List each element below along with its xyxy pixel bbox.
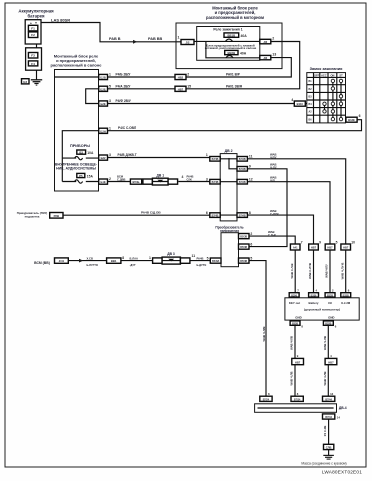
svg-text:В356: В356: [291, 294, 297, 297]
svg-text:А41: А41: [293, 246, 298, 250]
svg-text:Б.ДУТЕ: Б.ДУТЕ: [197, 263, 207, 267]
wire row6 BCM feed: [108, 181, 210, 183]
svg-text:10А: 10А: [87, 151, 94, 155]
wire row E converter to connector column 1: [249, 236, 295, 244]
svg-text:АСС: АСС: [321, 74, 327, 78]
wire gnd left down to HB7: [294, 325, 296, 358]
svg-text:Р4/Б 2В/У: Р4/Б 2В/У: [116, 73, 132, 77]
svg-text:В.ЛАА: В.ЛАА: [130, 256, 139, 260]
svg-text:расположенный в салоне: расположенный в салоне: [51, 63, 103, 68]
svg-text:В7/4В: В7/4В: [239, 158, 246, 161]
svg-text:LWA80EXT02E01: LWA80EXT02E01: [322, 470, 362, 475]
connector B1E row6: [99, 177, 111, 184]
svg-text:4: 4: [182, 175, 184, 179]
svg-text:6: 6: [359, 114, 361, 118]
svg-text:KEY out: KEY out: [289, 301, 300, 305]
wire row B to converter pin: [247, 169, 287, 247]
svg-text:GND: GND: [328, 315, 334, 319]
wire busbar to body ground: [328, 419, 330, 444]
fuse box (cabin) outline: [55, 70, 99, 192]
connector row: HB7 pin 9: [309, 241, 321, 250]
svg-text:-ДУТ: -ДУТ: [130, 263, 137, 267]
ignition switch contact bars: [325, 79, 342, 120]
svg-text:10: 10: [351, 241, 355, 245]
svg-text:В33В: В33В: [292, 323, 298, 326]
battery box 1: [25, 20, 41, 44]
svg-text:ILLUM: ILLUM: [341, 301, 350, 305]
connector J2 (right lower), pin 13: [260, 53, 277, 60]
junction DV2 right pin A, pin 11: [237, 155, 253, 162]
wire row A to connector column 4: [247, 159, 345, 244]
fuse F3: [28, 53, 37, 59]
connector P2B: [50, 213, 63, 219]
wire row1 fuse box to ignition relay pin13: [108, 58, 292, 77]
connector B2B row2: [99, 84, 111, 91]
svg-text:1: 1: [178, 35, 180, 39]
svg-text:В5/АВ: В5/АВ: [212, 260, 219, 263]
connector B2E row3: [99, 99, 111, 106]
connector B22 row5: [99, 153, 111, 160]
svg-text:ЗЗ С.ЗВ: ЗЗ С.ЗВ: [323, 426, 327, 437]
svg-text:С/Ж: С/Ж: [187, 178, 193, 182]
svg-text:СК: СК: [328, 301, 332, 305]
svg-text:В5/ЗВ: В5/ЗВ: [240, 246, 247, 249]
display gnd pin left: [290, 321, 303, 329]
connector HB7 (gnd right): [325, 358, 337, 364]
converter left pin (pin 5): [207, 257, 221, 264]
svg-text:Е3: Е3: [23, 80, 27, 84]
svg-text:WAB Ч/ЛУ: WAB Ч/ЛУ: [325, 264, 329, 278]
joint DV-3: [153, 252, 196, 264]
svg-text:В7/34: В7/34: [294, 398, 301, 401]
svg-text:3: 3: [206, 177, 208, 181]
svg-text:В110: В110: [297, 102, 304, 106]
wire row5 fuse box to junction DV2: [108, 157, 210, 159]
svg-text:расположенный в моторном: расположенный в моторном: [206, 15, 264, 20]
battery label: [18, 9, 54, 19]
svg-text:1: 1: [109, 126, 111, 130]
svg-text:РА01 ЗВ/Я: РА01 ЗВ/Я: [226, 84, 243, 88]
svg-text:OFF: OFF: [314, 74, 320, 78]
display pin B336 (pin 4): [309, 289, 319, 298]
busbar bottom pin, pin 14: [323, 414, 341, 420]
junction DV2 right pin C, pin 12: [237, 178, 253, 185]
svg-text:13: 13: [272, 53, 276, 57]
svg-text:ST: ST: [339, 74, 343, 78]
svg-text:7: 7: [301, 241, 303, 245]
arrow on battery wire: [133, 40, 137, 44]
svg-text:Ч/Л: Ч/Л: [270, 179, 275, 183]
svg-text:В336: В336: [311, 294, 317, 297]
svg-text:Б2Б: Б2Б: [100, 87, 105, 91]
junction DV2 right pin B, pin 9: [237, 165, 251, 172]
svg-text:F3: F3: [31, 54, 35, 58]
junction DV2 left pin row6: [206, 177, 220, 184]
svg-text:Battery: Battery: [309, 301, 319, 305]
svg-text:3: 3: [109, 153, 111, 157]
fuse 40A no.2 (fusible link): [225, 50, 247, 57]
connector SLV: [324, 444, 334, 449]
svg-text:С.Л-В: С.Л-В: [268, 233, 276, 237]
svg-text:ДВ 1: ДВ 1: [157, 173, 165, 177]
junction box DV2: [220, 149, 237, 221]
svg-text:WAB Ч.ЛВ: WAB Ч.ЛВ: [323, 371, 327, 385]
connector row: A41 pin 7: [290, 241, 302, 250]
wire HB7 right down to busbar: [327, 365, 329, 397]
svg-text:WAB Ч.ЛВ: WAB Ч.ЛВ: [290, 371, 294, 385]
svg-text:Р5: Р5: [79, 174, 83, 178]
ground busbar DV-4: [255, 404, 347, 413]
svg-text:F1: F1: [31, 27, 35, 31]
svg-text:LAS 80SR: LAS 80SR: [51, 17, 70, 22]
svg-text:В13Е: В13Е: [348, 118, 355, 122]
wire connector column 1 down to display: [294, 250, 296, 293]
svg-text:НИЕ, АУДИОСИСТЕМЫ: НИЕ, АУДИОСИСТЕМЫ: [56, 167, 96, 171]
svg-text:Б2Н: Б2Н: [100, 129, 105, 133]
svg-text:WAB Ч/ЛВ: WAB Ч/ЛВ: [290, 336, 294, 350]
svg-text:9: 9: [319, 241, 321, 245]
svg-text:РА4В: РА4В: [197, 256, 204, 260]
svg-text:WAB С-ЛУВ: WAB С-ЛУВ: [308, 263, 312, 279]
svg-text:ВВ1В: ВВ1В: [227, 34, 235, 38]
wire battery box2 to ground: [36, 70, 38, 80]
wire BCM to converter: [68, 260, 210, 262]
converter right pin 3 (pin 5): [239, 257, 253, 264]
internal feed wire from J2: [194, 41, 260, 57]
svg-text:WAB Ч-Л/В: WAB Ч-Л/В: [262, 327, 266, 342]
fuse 40A no.1: [224, 33, 247, 42]
display pin B32B (pin 2): [325, 289, 335, 298]
svg-text:1: 1: [109, 73, 111, 77]
svg-text:В32В: В32В: [325, 323, 331, 326]
svg-text:F2: F2: [31, 33, 35, 37]
svg-text:В33В: В33В: [343, 294, 349, 297]
wire row C to connector column 3: [247, 182, 330, 244]
fuse 10A: [75, 150, 94, 160]
svg-text:В7/4В: В7/4В: [212, 181, 219, 184]
svg-text:2: 2: [109, 177, 111, 181]
svg-text:ВЗ: ВЗ: [79, 151, 83, 155]
svg-text:Р4/А 2В/У: Р4/А 2В/У: [116, 84, 132, 88]
connector B2N row4: [99, 126, 111, 133]
wire gnd right down to HB7: [327, 325, 329, 358]
connector J2 (left): [181, 40, 194, 45]
svg-text:J/41: J/41: [59, 259, 65, 263]
fuse F4: [28, 61, 37, 66]
svg-text:ВВ2В: ВВ2В: [227, 51, 235, 55]
svg-text:Б2В: Б2В: [100, 76, 105, 80]
connector BU4B: [130, 179, 141, 184]
svg-text:Р4/Ф 2В/У: Р4/Ф 2В/У: [116, 99, 132, 103]
svg-text:вставкой, расположенный в сало: вставкой, расположенный в салоне: [205, 46, 257, 50]
wire row3 fuse box to ignition switch B110: [108, 103, 295, 105]
svg-text:Х.СВ: Х.СВ: [87, 256, 93, 260]
svg-text:В7/4В: В7/4В: [212, 158, 219, 161]
svg-text:1: 1: [206, 153, 208, 157]
svg-text:ДВ 3: ДВ 3: [167, 252, 175, 256]
ignition switch table: [307, 73, 346, 123]
ground (body): [323, 455, 334, 459]
junction DV2 left pin lighter: [210, 213, 220, 218]
svg-text:WAB Ч-ЛВ: WAB Ч-ЛВ: [323, 336, 327, 350]
svg-text:5: 5: [336, 241, 338, 245]
svg-text:В7/44: В7/44: [325, 416, 332, 419]
fuse block inner box: [197, 27, 260, 61]
fuse F1: [28, 25, 37, 31]
svg-text:40А: 40А: [240, 52, 247, 56]
fuse F2: [28, 32, 37, 38]
svg-text:J/2: J/2: [263, 40, 267, 44]
wire row G converter to busbar: [249, 261, 266, 397]
connector HB7 (gnd left): [292, 358, 304, 364]
svg-text:40А: 40А: [241, 34, 248, 38]
svg-text:С-ЛУВ: С-ЛУВ: [270, 212, 279, 216]
svg-text:Масса (соединение с кузовом): Масса (соединение с кузовом): [301, 461, 346, 465]
voltage converter box: [221, 233, 239, 267]
svg-text:НВ7: НВ7: [178, 87, 184, 91]
svg-text:НВ7: НВ7: [327, 246, 333, 250]
svg-text:Б.ЛУГТО: Б.ЛУГТО: [87, 263, 98, 267]
internal bracket rows 2-3: [86, 89, 99, 104]
ground (battery): [31, 80, 42, 85]
battery box 2: [26, 48, 42, 70]
wire connector column 2 down: [313, 250, 315, 293]
svg-text:ON: ON: [330, 74, 334, 78]
trip computer box: [285, 298, 359, 320]
svg-text:СЛВ: СЛВ: [326, 446, 332, 450]
svg-text:ДВ-4: ДВ-4: [339, 406, 347, 410]
svg-text:12: 12: [249, 178, 253, 182]
svg-text:ВУ4Б: ВУ4Б: [133, 180, 140, 184]
wire battery to relay block (node PAB): [41, 23, 181, 42]
svg-text:4: 4: [291, 98, 293, 102]
wire connector column 4 down: [345, 250, 347, 293]
svg-text:15: 15: [187, 84, 191, 88]
wire row4 fuse box to ignition switch B13E: [108, 120, 362, 131]
relay block (engine compartment) outer box: [176, 23, 282, 69]
svg-text:2: 2: [272, 37, 274, 41]
display pin B33B (pin 6): [341, 289, 351, 298]
svg-text:6: 6: [250, 243, 252, 247]
busbar pin 1: [260, 396, 272, 401]
svg-text:Р4/В Д/ЖВ.Т: Р4/В Д/ЖВ.Т: [118, 153, 137, 157]
svg-text:НВ7: НВ7: [343, 246, 349, 250]
svg-text:Ч/ЛУ: Ч/ЛУ: [270, 156, 277, 160]
svg-text:батарея: батарея: [27, 13, 45, 18]
svg-text:GND: GND: [295, 315, 301, 319]
svg-text:ПРИБОРЫ: ПРИБОРЫ: [70, 144, 90, 148]
connector row: HB7 pin 10: [341, 241, 355, 250]
connector J41: [55, 258, 69, 263]
ignition switch contacts: [323, 79, 343, 121]
svg-text:8: 8: [122, 256, 124, 260]
wire row D to connector column 2: [247, 215, 313, 244]
svg-text:8: 8: [249, 211, 251, 215]
svg-text:В7/24: В7/24: [263, 398, 270, 401]
svg-text:В32В: В32В: [327, 294, 333, 297]
svg-text:Б22: Б22: [101, 156, 106, 160]
svg-text:5: 5: [109, 84, 111, 88]
svg-text:14: 14: [337, 416, 341, 420]
svg-text:Б1Е: Б1Е: [100, 180, 105, 184]
svg-text:В5/ЗВ: В5/ЗВ: [240, 260, 247, 263]
svg-text:подсветка: подсветка: [25, 215, 40, 219]
wire row2 fuse box to ignition relay pin2: [108, 42, 300, 89]
converter right pin 1 (pin 2): [239, 232, 253, 239]
svg-text:РАВ В: РАВ В: [109, 37, 121, 41]
svg-text:РА4В С/Д.ОВ: РА4В С/Д.ОВ: [141, 211, 161, 215]
connector B13E, pin 6: [346, 114, 361, 122]
svg-text:6: 6: [206, 211, 208, 215]
arrow on BCM wire: [79, 259, 83, 263]
wire HB7 left down to busbar: [294, 365, 296, 397]
svg-text:Р4/С С.ОВЛ: Р4/С С.ОВЛ: [118, 126, 137, 130]
connector B110, pin 4: [291, 98, 306, 106]
svg-text:2: 2: [187, 73, 189, 77]
display pin B356 (pin 7): [289, 289, 299, 298]
svg-text:РАВ ВВ: РАВ ВВ: [148, 37, 162, 41]
svg-text:В5/ЗВ: В5/ЗВ: [240, 236, 247, 239]
fuse box (cabin) header: [51, 54, 103, 68]
svg-text:J/2: J/2: [263, 56, 267, 60]
svg-text:1: 1: [149, 256, 151, 260]
fuse 15A: [75, 173, 94, 183]
wire cigarette lighter to junction DV2: [63, 214, 210, 216]
connector B2V row1: [99, 73, 111, 80]
busbar pin 3: [323, 396, 335, 401]
svg-text:9: 9: [249, 165, 251, 169]
connector E3: [22, 79, 30, 84]
svg-text:В7/4В: В7/4В: [239, 168, 246, 171]
svg-text:11: 11: [192, 254, 196, 258]
wire SLV to ground: [328, 450, 330, 456]
svg-text:Реле зажигания 1: Реле зажигания 1: [213, 28, 242, 32]
svg-text:5: 5: [250, 257, 252, 261]
svg-text:2: 2: [250, 232, 252, 236]
display gnd pin right: [323, 321, 336, 329]
svg-text:Ч-ЛУ: Ч-ЛУ: [270, 166, 277, 170]
svg-text:Р2В: Р2В: [54, 214, 59, 218]
svg-text:15А: 15А: [87, 175, 94, 179]
svg-text:Б2Е: Б2Е: [100, 102, 105, 106]
svg-text:J/2: J/2: [186, 40, 190, 44]
svg-text:F4: F4: [31, 62, 35, 66]
internal wire net (accessory feed): [62, 131, 99, 182]
svg-text:В7/4В: В7/4В: [239, 181, 246, 184]
connector row: HB7 pin 5: [325, 241, 337, 250]
svg-text:ВВ1: ВВ1: [111, 259, 117, 263]
wire battery box1 to box2: [36, 44, 38, 48]
svg-text:Замок зажигания: Замок зажигания: [310, 66, 343, 71]
junction DV2 left pin row5: [210, 157, 220, 162]
connector BB1, pin 8: [107, 256, 125, 263]
internal feed wire row1: [55, 76, 99, 78]
svg-text:(дорожный компьютер): (дорожный компьютер): [304, 307, 340, 311]
svg-text:НВ7: НВ7: [311, 246, 317, 250]
svg-text:НВ7: НВ7: [328, 360, 334, 364]
svg-text:13: 13: [330, 392, 334, 396]
connector J2 (right upper), pin 2: [260, 37, 275, 44]
svg-text:В7/44: В7/44: [325, 398, 332, 401]
svg-text:WAB Ч.ЛУ-В: WAB Ч.ЛУ-В: [340, 263, 344, 280]
svg-text:НВ2: НВ2: [178, 76, 184, 80]
svg-text:11: 11: [249, 155, 253, 159]
svg-text:В7/4В: В7/4В: [239, 215, 246, 218]
svg-text:WAB С.Л-В: WAB С.Л-В: [290, 263, 294, 278]
relay block header: [206, 6, 264, 20]
svg-text:РА01 В/Р: РА01 В/Р: [226, 73, 241, 77]
svg-text:НВ7: НВ7: [295, 360, 301, 364]
svg-text:5: 5: [207, 257, 209, 261]
connector HB7 row2: [175, 84, 191, 91]
junction DV2 right pin D, pin 8: [237, 211, 251, 218]
svg-text:ДВ 2: ДВ 2: [225, 149, 233, 153]
svg-text:ВСМ (ВВ): ВСМ (ВВ): [34, 261, 50, 265]
wire connector column 3 down: [329, 250, 331, 293]
connector HB2: [175, 73, 189, 80]
svg-text:С.ДВВ: С.ДВВ: [117, 178, 126, 182]
joint DV-1: [143, 173, 184, 185]
converter right pin 2 (pin 6): [239, 243, 253, 250]
busbar pin 2: [291, 396, 303, 401]
svg-text:3: 3: [109, 99, 111, 103]
svg-text:В7/4В: В7/4В: [212, 215, 219, 218]
